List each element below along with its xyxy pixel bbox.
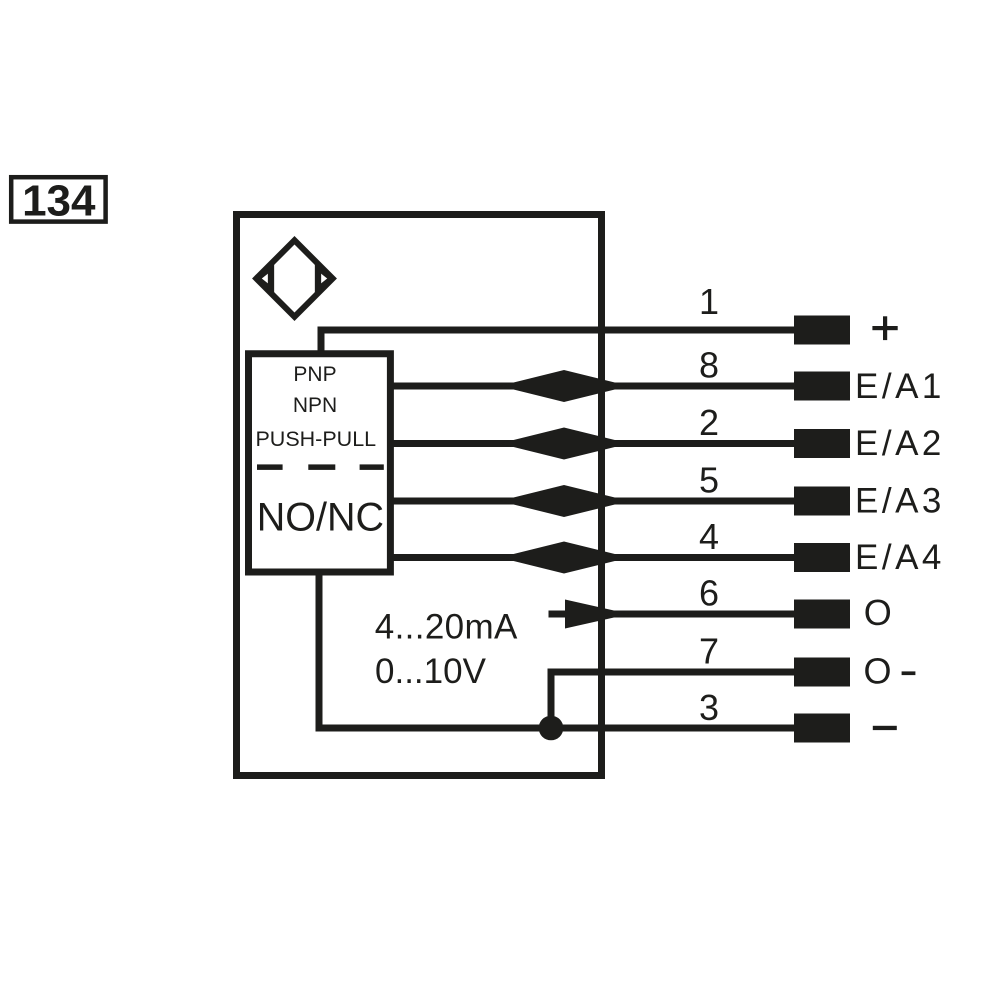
svg-text:2: 2 — [699, 402, 719, 443]
bidirectional arrow pin2 — [500, 428, 630, 460]
svg-text:4...20mA: 4...20mA — [375, 607, 518, 646]
label minus — [873, 726, 897, 730]
svg-text:E/A1: E/A1 — [855, 367, 945, 406]
svg-text:8: 8 — [699, 345, 719, 386]
bidirectional arrow pin4 — [500, 542, 630, 574]
svg-text:PNP: PNP — [293, 363, 336, 386]
wire pin8 — [388, 383, 794, 390]
terminal pin2 — [794, 429, 850, 458]
svg-text:7: 7 — [699, 631, 719, 672]
svg-text:O: O — [864, 592, 892, 633]
wire pin4 — [388, 554, 794, 561]
terminal pin3 — [794, 714, 850, 743]
label O minus — [864, 651, 916, 692]
terminal pin7 — [794, 658, 850, 687]
figure number box 134 — [11, 177, 105, 226]
wire pin7 with corner down to junction — [551, 672, 794, 728]
dashed separator — [257, 464, 384, 470]
bidirectional arrow pin8 — [500, 370, 630, 402]
svg-text:6: 6 — [699, 573, 719, 614]
optical sensor symbol diamond — [256, 240, 332, 316]
wire pin2 — [388, 440, 794, 447]
output arrow pin6 — [565, 600, 630, 629]
diamond right triangle — [319, 270, 330, 287]
wire pin3 from block bottom to terminal — [319, 571, 794, 728]
svg-text:3: 3 — [699, 687, 719, 728]
svg-text:134: 134 — [22, 177, 96, 226]
svg-text:E/A2: E/A2 — [855, 424, 945, 463]
diamond right bar — [315, 265, 321, 293]
svg-text:O: O — [864, 651, 892, 692]
wire pin6 with stub — [549, 611, 795, 618]
junction dot — [539, 716, 564, 741]
svg-text:1: 1 — [699, 281, 719, 322]
wire pin5 — [388, 498, 794, 505]
label + (plus) — [872, 316, 897, 340]
svg-text:PUSH-PULL: PUSH-PULL — [255, 427, 376, 451]
svg-text:E/A4: E/A4 — [855, 538, 945, 577]
diamond left triangle — [260, 270, 271, 287]
svg-text:0...10V: 0...10V — [375, 652, 487, 691]
terminal pin1 — [794, 316, 850, 345]
terminal pin8 — [794, 372, 850, 401]
svg-text:5: 5 — [699, 460, 719, 501]
svg-text:E/A3: E/A3 — [855, 481, 945, 520]
wire pin1 from block top to terminal — [321, 330, 794, 356]
terminal pin6 — [794, 600, 850, 629]
svg-text:NPN: NPN — [293, 394, 337, 417]
svg-text:NO/NC: NO/NC — [257, 496, 384, 540]
output stage block — [249, 354, 391, 572]
bidirectional arrow pin5 — [500, 485, 630, 517]
terminal pin4 — [794, 543, 850, 572]
sensor housing outline — [237, 215, 602, 776]
svg-text:4: 4 — [699, 516, 719, 557]
terminal pin5 — [794, 487, 850, 516]
diamond left bar — [268, 265, 274, 293]
